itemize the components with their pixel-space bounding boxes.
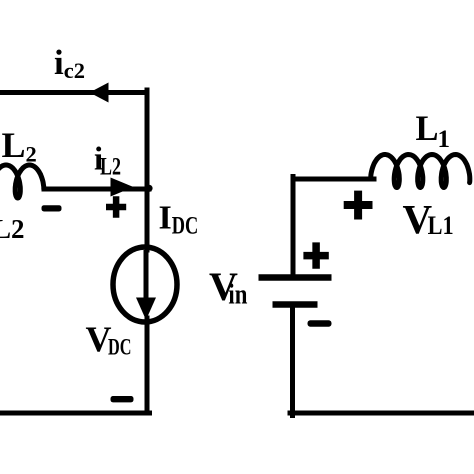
- wire: bottom of right loop: [290, 411, 474, 416]
- svg-text:VDC: VDC: [86, 319, 132, 361]
- inductor L2 (coil, cut at left edge): [0, 165, 44, 198]
- wire: current source to bottom left corner: [145, 318, 150, 413]
- polarity minus of V_DC: [111, 396, 134, 402]
- wire: battery - plate to bottom of right loop: [290, 305, 295, 416]
- polarity minus of battery: [308, 320, 332, 326]
- wire: top of right loop: [293, 177, 374, 182]
- battery V_in negative plate (short): [273, 301, 318, 308]
- wire: left loop right vertical, node to current source: [145, 90, 150, 250]
- wire: bottom of left loop: [0, 411, 150, 416]
- svg-text:L1: L1: [416, 108, 451, 153]
- polarity plus of V_L2: [106, 196, 126, 218]
- wire: top of left loop (i_c2 branch): [0, 90, 147, 95]
- svg-text:iL2: iL2: [94, 142, 121, 181]
- current source arrow head: [136, 298, 156, 321]
- wire: inductor L2 to node (i_L2 branch): [44, 187, 149, 192]
- battery V_in positive plate (long): [259, 274, 332, 281]
- current source arrow shaft: [144, 250, 149, 305]
- polarity minus of V_L2: [42, 205, 62, 211]
- svg-text:Vin: Vin: [209, 264, 248, 311]
- svg-text:L2: L2: [2, 125, 37, 167]
- polarity plus of V_L1: [344, 191, 373, 220]
- svg-text:ic2: ic2: [54, 43, 85, 83]
- polarity plus of battery: [303, 242, 328, 268]
- svg-text:L2: L2: [0, 214, 25, 244]
- svg-text:IDC: IDC: [159, 199, 199, 239]
- current source V_DC (circle): [113, 247, 177, 322]
- wire: right loop left vertical, corner to battery + plate: [291, 177, 296, 276]
- current arrow i_c2 (left-pointing): [90, 83, 109, 103]
- current arrow i_L2 (right-pointing): [111, 178, 134, 197]
- junction node: i_L2 branch to I_DC wire: [145, 185, 152, 192]
- svg-text:VL1: VL1: [403, 196, 454, 242]
- inductor L1 (coil): [371, 155, 470, 188]
